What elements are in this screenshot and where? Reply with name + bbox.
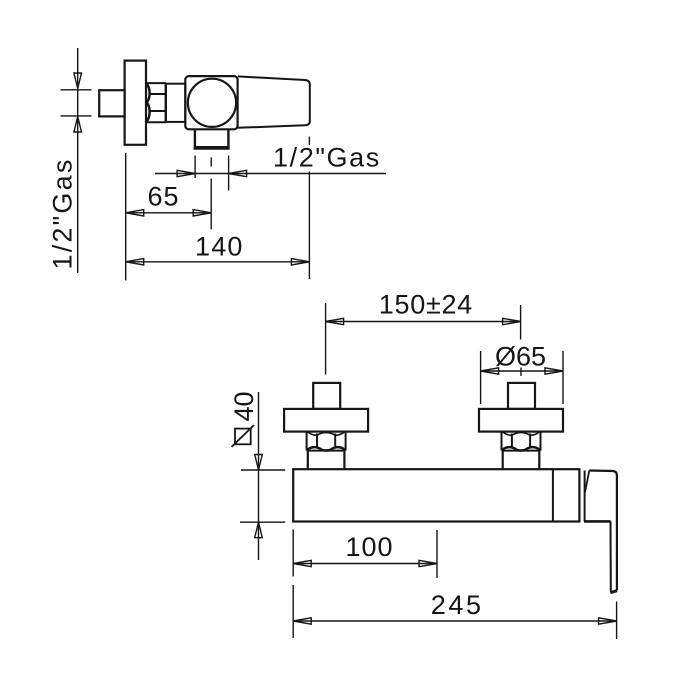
140 arrow right (291, 259, 309, 265)
dimension square40: extension top (241, 469, 285, 471)
dimension 150±24 line (326, 321, 521, 323)
arrow down to pipe top (74, 73, 82, 89)
right neck (503, 451, 540, 469)
svg-text:140: 140 (195, 232, 244, 262)
150 arrow right (503, 318, 521, 324)
dimension 140 line (126, 261, 310, 263)
body end divider (552, 469, 554, 521)
square40 arrow down (255, 455, 263, 471)
square symbol slash (232, 425, 254, 447)
handle plate bottom edge (584, 520, 611, 523)
wall supply pipe stub (99, 90, 124, 116)
245 arrow left (293, 618, 311, 624)
handle cone (side view) (238, 76, 310, 127)
245 right extension (616, 602, 618, 640)
svg-text:Ø65: Ø65 (495, 342, 546, 372)
dimension 245: left extension (lower) (292, 585, 294, 638)
Ø65 arrow left (481, 368, 499, 374)
cartridge circle (188, 79, 236, 127)
right nut (502, 432, 541, 451)
svg-text:1/2"Gas: 1/2"Gas (48, 157, 78, 269)
svg-text:40: 40 (229, 391, 259, 421)
left pipe stub (313, 383, 340, 409)
callout arrow pointing left (229, 170, 247, 176)
mixer body bar (293, 469, 579, 521)
right riser centerline (520, 305, 522, 340)
150 arrow left (326, 318, 344, 324)
left flange (284, 409, 368, 432)
svg-text:65: 65 (148, 182, 180, 212)
dimension 100/245: left extension (upper) (292, 530, 294, 577)
pipe top extension line (61, 89, 92, 91)
square symbol (235, 429, 251, 445)
flange extension line (125, 153, 127, 281)
left neck (308, 451, 345, 469)
outlet centerline (solid lower) (210, 179, 212, 230)
outlet bottom thick edge (194, 147, 230, 150)
100 arrow left (293, 560, 311, 566)
245 dim line (293, 620, 616, 622)
svg-text:150±24: 150±24 (379, 290, 473, 320)
valve body (side view) (185, 76, 237, 129)
handle inner diagonal (585, 471, 589, 493)
right flange (479, 409, 563, 432)
shower outlet stub (195, 130, 229, 148)
arrow up to pipe bottom (74, 117, 82, 133)
hex nut (side view) (146, 83, 166, 122)
100 dim line (293, 563, 437, 565)
pipe dimension line (1/2 Gas) (77, 48, 79, 273)
Ø65 center tick (520, 368, 522, 377)
wall flange (side view) (125, 61, 146, 145)
pipe bottom extension line (61, 115, 92, 117)
square40 arrow up (255, 522, 263, 538)
lever tip bevel (610, 591, 617, 593)
dimension 100: right extension (436, 530, 438, 578)
dimension Ø65 left extension (480, 351, 482, 404)
svg-text:245: 245 (431, 590, 484, 620)
Ø65 arrow right (545, 368, 563, 374)
dimension square40: extension bottom (240, 521, 285, 523)
lever blade left edge (610, 521, 612, 591)
outlet right extension line (228, 156, 230, 191)
dimension Ø65 right extension (562, 351, 564, 404)
right pipe stub (508, 383, 535, 409)
valve neck (side view) (166, 84, 186, 122)
svg-text:1/2"Gas: 1/2"Gas (273, 143, 381, 173)
left nut (307, 432, 346, 451)
cone extension line (solid) (308, 172, 310, 280)
65 arrow right (193, 210, 211, 216)
140 arrow left (126, 259, 144, 265)
callout line left (1/2 Gas outlet) (155, 173, 386, 175)
left riser centerline (325, 303, 327, 375)
245 arrow right (599, 618, 617, 624)
100 arrow right (419, 560, 437, 566)
outlet centerline (dash) (210, 157, 212, 166)
dimension 65 line (126, 212, 212, 214)
callout arrow pointing right (177, 170, 195, 176)
handle plate left edge (584, 471, 586, 522)
Ø65 dim line (481, 370, 563, 372)
cone extension line (dash) (308, 137, 310, 146)
svg-text:100: 100 (346, 532, 394, 562)
65 arrow left (126, 210, 144, 216)
outlet left extension line (194, 156, 196, 179)
square40 dim line (258, 392, 260, 560)
handle plate top and right edge (589, 471, 617, 591)
